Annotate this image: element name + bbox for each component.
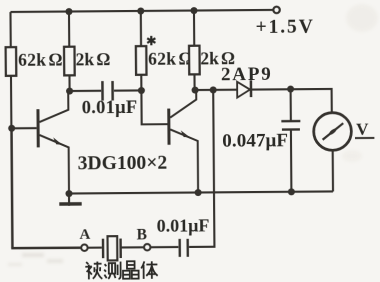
- node dot Q2 emitter: [195, 189, 202, 196]
- diode D1 cathode bar: [250, 80, 253, 97]
- wire R4 column top: [193, 11, 195, 46]
- node dot Q2 collector: [192, 87, 199, 94]
- node dot A1 (Q1 collector / C1 left): [66, 88, 73, 95]
- wire C3 to B terminal: [150, 246, 178, 248]
- capacitor C1 0.01uF plates: [101, 81, 104, 100]
- char 体: [141, 261, 158, 279]
- resistor R1 62k: [6, 47, 17, 76]
- svg-text:2kΩ: 2kΩ: [76, 49, 111, 69]
- wire left rail to A: [11, 246, 81, 249]
- resistor R4 2k: [189, 46, 200, 75]
- wire R4 bottom to node: [193, 74, 195, 90]
- wire R3 bottom to node: [140, 75, 142, 91]
- wire C1 left lead: [70, 90, 101, 92]
- node dot left rail base Q1: [8, 125, 15, 132]
- Q2 emitter arrow: [181, 130, 190, 137]
- wire C2 bottom lead: [290, 131, 293, 192]
- char 晶: [123, 261, 139, 279]
- label caption 被测晶体 (hand drawn): [85, 261, 157, 279]
- crystal Y1 left plate: [102, 239, 105, 258]
- underline of V: [355, 137, 374, 139]
- wire riser (bottom cap to diode node): [188, 90, 215, 247]
- wire Q1 base from left rail: [11, 127, 36, 129]
- svg-text:0.047μF: 0.047μF: [222, 130, 288, 152]
- svg-text:62kΩ: 62kΩ: [148, 49, 193, 69]
- node dot Q1 emitter: [65, 190, 72, 197]
- wire emitter bottom bus: [69, 191, 333, 193]
- capacitor C2 0.047uF plates: [281, 120, 300, 123]
- wire top rail: [10, 10, 273, 12]
- ground symbol: [68, 194, 70, 206]
- wire crystal to B: [122, 246, 144, 248]
- transistor Q2 base bar: [167, 109, 170, 145]
- wire collector row to diode: [195, 89, 237, 91]
- transistor Q1 base bar: [36, 109, 39, 147]
- transistor Q2 collector: [170, 90, 196, 117]
- wire C1 right lead: [114, 89, 141, 91]
- meter M1 circle: [314, 113, 352, 151]
- svg-text:A: A: [79, 227, 90, 243]
- crystal Y1 box: [108, 236, 118, 260]
- crystal Y1 right plate: [119, 239, 122, 258]
- wire A to crystal: [88, 247, 102, 249]
- svg-text:+1.5V: +1.5V: [256, 16, 315, 37]
- wire meter bottom stub: [332, 150, 334, 192]
- char 测: [104, 262, 121, 280]
- node dot rail-R4: [190, 7, 197, 14]
- wire R2 bottom to node: [68, 75, 70, 91]
- node dot rail-R2: [65, 8, 72, 15]
- meter needle: [322, 123, 343, 140]
- node dot riser top: [210, 86, 217, 93]
- resistor R2 2k: [64, 47, 75, 76]
- resistor R3 62k (starred): [136, 46, 147, 75]
- svg-text:62kΩ: 62kΩ: [18, 49, 63, 69]
- wire R3 column top: [140, 11, 142, 46]
- transistor Q1 emitter: [39, 135, 69, 194]
- svg-text:0.01μF: 0.01μF: [82, 98, 138, 118]
- wire R2 column top: [68, 12, 70, 47]
- node dot rail-R3: [137, 7, 144, 14]
- svg-text:0.01μF: 0.01μF: [157, 215, 210, 235]
- terminal B (open circle): [144, 244, 150, 250]
- svg-text:V: V: [356, 119, 369, 138]
- diode D1 2AP9 triangle: [237, 82, 250, 98]
- node dot B1 (C1 right / Q2 base / R3): [138, 87, 145, 94]
- node dot C2 top: [287, 86, 294, 93]
- terminal +1.5V (open circle): [273, 7, 279, 13]
- terminal A (open circle): [81, 245, 87, 251]
- Q1 emitter arrow: [53, 137, 62, 145]
- capacitor C3 0.01uF plates: [186, 239, 189, 257]
- transistor Q1 collector: [39, 91, 68, 122]
- svg-text:2AP9: 2AP9: [221, 64, 273, 85]
- wire left rail: [9, 12, 12, 131]
- asterisk mark for R3: [147, 36, 155, 45]
- svg-text:B: B: [137, 226, 147, 243]
- transistor Q2 emitter: [170, 129, 198, 193]
- svg-text:3DG100×2: 3DG100×2: [78, 153, 168, 175]
- wire Q2 base from C1 node: [141, 90, 167, 124]
- wire diode to meter corner: [251, 89, 332, 113]
- char 被: [85, 261, 102, 279]
- wire C2 top lead: [290, 89, 292, 121]
- node dot C2 bottom: [288, 188, 295, 195]
